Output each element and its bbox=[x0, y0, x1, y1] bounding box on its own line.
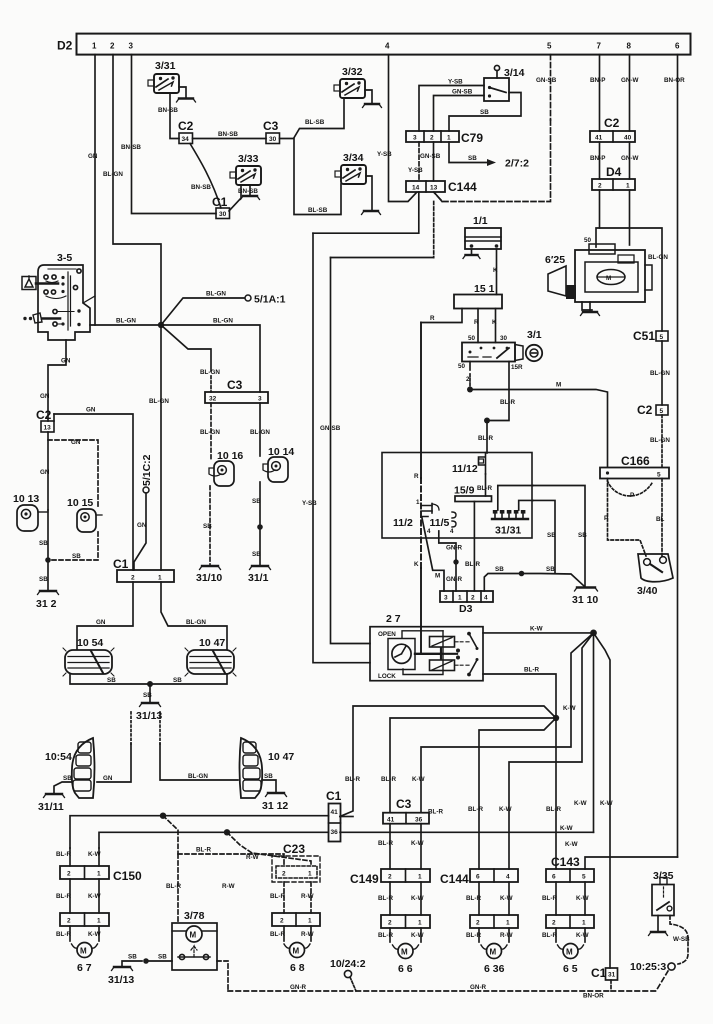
connector C144 top bbox=[406, 180, 477, 194]
svg-text:BL-R: BL-R bbox=[500, 399, 515, 406]
svg-text:13: 13 bbox=[44, 425, 52, 432]
terminal 10/25:3 bbox=[630, 961, 675, 973]
svg-text:OPEN: OPEN bbox=[378, 631, 396, 638]
svg-text:BL-R: BL-R bbox=[477, 485, 492, 492]
svg-text:31 10: 31 10 bbox=[572, 594, 598, 606]
svg-text:R: R bbox=[474, 319, 479, 326]
svg-text:2/7:2: 2/7:2 bbox=[505, 158, 529, 170]
svg-text:D2: D2 bbox=[57, 39, 73, 53]
svg-text:BL-R: BL-R bbox=[468, 806, 483, 813]
wire BL-GN junction to C3-3 bbox=[161, 318, 260, 393]
svg-text:SB: SB bbox=[252, 551, 261, 558]
wire GN 10:54 up bbox=[97, 744, 131, 782]
svg-text:31 2: 31 2 bbox=[36, 598, 57, 610]
wire K-W C3 to C149-1 bbox=[411, 824, 424, 869]
svg-text:R-W: R-W bbox=[500, 932, 513, 939]
svg-text:31/11: 31/11 bbox=[38, 801, 64, 813]
svg-text:C143: C143 bbox=[551, 855, 580, 869]
svg-text:14: 14 bbox=[412, 185, 420, 192]
lock actuator 2/7 bbox=[370, 613, 483, 681]
connector C1 rail bbox=[113, 557, 174, 582]
svg-text:Y-SB: Y-SB bbox=[302, 500, 317, 507]
wires to motor 6 5 bbox=[542, 928, 589, 942]
svg-text:5/1A:1: 5/1A:1 bbox=[254, 294, 286, 306]
svg-text:BL-R: BL-R bbox=[378, 895, 393, 902]
svg-text:C150: C150 bbox=[113, 869, 142, 883]
svg-text:2: 2 bbox=[476, 920, 480, 927]
wire BL-R dashed A to 3/78 and C23 bbox=[163, 816, 284, 923]
node junction BL-R bbox=[484, 418, 490, 424]
ground 31/13 bottom bbox=[108, 967, 134, 986]
connector D3 bbox=[440, 591, 493, 615]
svg-text:BL-R: BL-R bbox=[542, 932, 557, 939]
wire GN C2 dashed to 10 15 bbox=[48, 439, 98, 508]
connector C144 bottom bbox=[440, 869, 518, 886]
wire SB 31/31 to cluster edge lower bbox=[519, 500, 533, 510]
svg-text:K-W: K-W bbox=[560, 825, 573, 832]
svg-text:SB: SB bbox=[578, 532, 587, 539]
svg-text:10 54: 10 54 bbox=[77, 637, 103, 649]
switch assembly 3/5 bbox=[22, 252, 95, 340]
wire BL-GN C3-32 to 10 16 bbox=[200, 403, 220, 461]
svg-text:1: 1 bbox=[158, 575, 162, 582]
ground 31/1 bbox=[248, 566, 271, 584]
wire 15-1 to 3/1 K bbox=[492, 309, 497, 343]
wire BL-GN 3/5 to junction bbox=[90, 318, 158, 326]
wire to motor 6/7 bbox=[56, 926, 101, 941]
svg-text:GN-R: GN-R bbox=[446, 545, 463, 552]
wire BN-SB 3/33 to C1 bbox=[191, 184, 258, 211]
wire BL-R C150 to connector bbox=[56, 879, 71, 913]
svg-text:K-W: K-W bbox=[88, 931, 101, 938]
svg-text:1: 1 bbox=[416, 499, 420, 506]
svg-text:GN: GN bbox=[96, 619, 106, 626]
wire BL-GN junction to 5/1A:1 bbox=[161, 291, 286, 326]
svg-text:8: 8 bbox=[627, 42, 632, 51]
wire W-SB 3/35 to 10/25:3 bbox=[670, 916, 690, 965]
connector C2 (34) bbox=[178, 119, 194, 144]
ground 31 12 bbox=[262, 793, 288, 812]
svg-text:5/1C:2: 5/1C:2 bbox=[141, 454, 153, 486]
wire BN-SB C2 to C3 bbox=[193, 131, 267, 139]
svg-text:31: 31 bbox=[608, 972, 616, 979]
svg-text:SB: SB bbox=[63, 775, 72, 782]
svg-text:K-W: K-W bbox=[500, 895, 513, 902]
relay 3/78 bbox=[172, 910, 217, 970]
svg-text:3/1: 3/1 bbox=[527, 329, 542, 341]
ground 31 10 bbox=[572, 588, 598, 607]
node 15 1 rail bbox=[454, 283, 502, 309]
wires C149 to lower connector bbox=[378, 882, 424, 915]
wire D4-1 to starter bbox=[629, 190, 631, 245]
connector C3 mid bbox=[205, 378, 268, 403]
wire SB 10:54 to ground 31:11 bbox=[54, 775, 72, 793]
svg-text:3/31: 3/31 bbox=[155, 60, 176, 72]
svg-text:P: P bbox=[604, 515, 608, 522]
switch 3/31 bbox=[148, 60, 179, 93]
lamp 10 13 bbox=[13, 493, 48, 531]
svg-text:BL-GN: BL-GN bbox=[650, 437, 670, 444]
svg-text:10:54: 10:54 bbox=[45, 751, 72, 763]
wire Y-SB C79-3 to C144-14 bbox=[408, 142, 423, 181]
ignition switch 3/1 bbox=[462, 329, 542, 362]
wire BN-P C2 to D4 bbox=[590, 142, 605, 179]
svg-text:R: R bbox=[430, 315, 435, 322]
wire GN-SB C79-2 to 3/14 bbox=[434, 89, 485, 132]
lamp 11/12 bbox=[452, 453, 486, 476]
svg-text:BL-R: BL-R bbox=[56, 893, 71, 900]
wire BL C166 to 3/40 bbox=[656, 479, 665, 557]
svg-text:GN: GN bbox=[40, 469, 50, 476]
svg-text:C1: C1 bbox=[326, 789, 342, 803]
svg-text:BL-R: BL-R bbox=[378, 932, 393, 939]
svg-text:2: 2 bbox=[471, 595, 475, 602]
svg-text:11/5: 11/5 bbox=[430, 517, 450, 529]
svg-text:BN-SB: BN-SB bbox=[218, 131, 238, 138]
wire SB 10 15 dashed to 10 13 bbox=[52, 532, 98, 560]
switch 3/40 bbox=[637, 554, 673, 597]
svg-text:4: 4 bbox=[450, 528, 454, 535]
svg-text:BL-R: BL-R bbox=[378, 840, 393, 847]
wire R-W dashed B to C23 bbox=[222, 832, 311, 890]
svg-text:6: 6 bbox=[552, 874, 556, 881]
lamp cluster 10 54 bbox=[63, 637, 114, 676]
svg-text:BL-SB: BL-SB bbox=[305, 119, 325, 126]
svg-text:GN-W: GN-W bbox=[621, 77, 639, 84]
wire 15-1 to 3/1 R bbox=[474, 309, 479, 343]
svg-text:BL-R: BL-R bbox=[270, 931, 285, 938]
wires to motor 6 36 bbox=[466, 928, 513, 942]
svg-text:1: 1 bbox=[582, 920, 586, 927]
svg-text:1: 1 bbox=[308, 871, 312, 878]
svg-text:M: M bbox=[556, 382, 561, 389]
svg-text:1: 1 bbox=[97, 918, 101, 925]
svg-text:SB: SB bbox=[39, 576, 48, 583]
svg-text:5: 5 bbox=[657, 472, 661, 479]
svg-text:BL-R: BL-R bbox=[466, 895, 481, 902]
wire M relay arm to D3-3 bbox=[422, 517, 444, 591]
svg-text:3: 3 bbox=[129, 42, 134, 51]
svg-text:3/32: 3/32 bbox=[342, 66, 363, 78]
svg-text:32: 32 bbox=[209, 396, 217, 403]
svg-text:15 1: 15 1 bbox=[474, 283, 495, 295]
svg-text:2: 2 bbox=[552, 920, 556, 927]
wire GN C2 up-over to C1 rail bbox=[54, 407, 133, 571]
wire C144-13 down legs bbox=[320, 192, 442, 644]
svg-text:SB: SB bbox=[264, 773, 273, 780]
svg-text:K-W: K-W bbox=[499, 806, 512, 813]
svg-text:50: 50 bbox=[458, 363, 466, 370]
wire BL-R 15/9 to D3-2 bbox=[465, 502, 480, 592]
wire dotted continuation left bbox=[131, 712, 160, 744]
svg-text:13: 13 bbox=[430, 185, 438, 192]
wire K-W fan to C144-4 bbox=[499, 633, 594, 869]
svg-text:2 7: 2 7 bbox=[386, 613, 401, 625]
svg-text:M: M bbox=[293, 947, 300, 956]
lamp cluster 10 47 bbox=[185, 637, 236, 676]
svg-text:SB: SB bbox=[39, 540, 48, 547]
wire Y-SB from D2-4 bbox=[377, 55, 417, 202]
ground for starter bbox=[581, 302, 600, 316]
svg-text:10/24:2: 10/24:2 bbox=[330, 958, 366, 970]
svg-text:15R: 15R bbox=[511, 364, 523, 371]
switch 3/34 bbox=[335, 152, 366, 184]
svg-text:BL-R: BL-R bbox=[428, 809, 443, 816]
wire BL-GN junction down bbox=[149, 325, 169, 570]
motor 6 5 bbox=[558, 944, 584, 976]
svg-text:50: 50 bbox=[468, 335, 476, 342]
svg-text:2: 2 bbox=[388, 920, 392, 927]
svg-text:15/9: 15/9 bbox=[454, 485, 475, 497]
svg-text:Y-SB: Y-SB bbox=[408, 167, 423, 174]
svg-text:BL-R: BL-R bbox=[56, 931, 71, 938]
ground 31/13 bbox=[136, 703, 162, 722]
wire BN-SB 3/31 to C2 bbox=[158, 93, 179, 139]
svg-text:5: 5 bbox=[660, 408, 664, 415]
svg-text:K-W: K-W bbox=[88, 893, 101, 900]
svg-text:6′25: 6′25 bbox=[545, 254, 565, 266]
connector C1 (31) bbox=[591, 966, 618, 980]
wire to motor 6/8 bbox=[270, 926, 314, 941]
switch 3/33 bbox=[230, 153, 261, 185]
svg-text:BL-GN: BL-GN bbox=[206, 291, 226, 298]
svg-text:SB: SB bbox=[203, 523, 212, 530]
svg-text:1: 1 bbox=[458, 595, 462, 602]
wire BL-GN from D2-2 bbox=[103, 55, 161, 325]
svg-text:10 47: 10 47 bbox=[268, 751, 294, 763]
svg-text:BL-R: BL-R bbox=[546, 806, 561, 813]
wire SB 3/14 to C79-1 bbox=[449, 93, 521, 132]
svg-text:2: 2 bbox=[430, 135, 434, 142]
svg-text:2: 2 bbox=[282, 871, 286, 878]
svg-text:SB: SB bbox=[107, 677, 116, 684]
svg-text:31/31: 31/31 bbox=[495, 525, 521, 537]
svg-text:41: 41 bbox=[387, 817, 395, 824]
svg-text:6 36: 6 36 bbox=[484, 963, 505, 975]
svg-text:1: 1 bbox=[447, 135, 451, 142]
svg-text:6 6: 6 6 bbox=[398, 963, 413, 975]
svg-text:BL-R: BL-R bbox=[466, 932, 481, 939]
svg-text:2: 2 bbox=[466, 376, 470, 383]
svg-text:BL-R: BL-R bbox=[465, 561, 480, 568]
svg-text:BL-SB: BL-SB bbox=[308, 207, 328, 214]
svg-text:BL-GN: BL-GN bbox=[250, 429, 270, 436]
svg-text:4: 4 bbox=[427, 528, 431, 535]
wire Y-SB C79-3 to 3/14 bbox=[419, 79, 484, 132]
node junction 50/M bbox=[467, 387, 473, 393]
svg-text:C23: C23 bbox=[283, 842, 305, 856]
node fan junction top bbox=[590, 630, 597, 637]
wire GN-W from D2-8 bbox=[621, 55, 639, 131]
svg-text:31/1: 31/1 bbox=[248, 572, 269, 584]
wire SB 10 13 to ground 31 2 bbox=[39, 510, 51, 590]
svg-text:41: 41 bbox=[595, 135, 603, 142]
svg-text:30: 30 bbox=[269, 136, 277, 143]
connector C51 bbox=[633, 329, 668, 343]
connector C150 bbox=[60, 866, 142, 883]
svg-text:1: 1 bbox=[626, 183, 630, 190]
svg-text:1: 1 bbox=[418, 920, 422, 927]
wire P C166 to 3/40 bbox=[604, 479, 646, 557]
wire dashed bottom bus BN-OR bbox=[228, 971, 668, 1000]
wire BL-R bus line A bbox=[70, 809, 443, 849]
svg-text:GN-SB: GN-SB bbox=[452, 89, 473, 96]
svg-text:BL-GN: BL-GN bbox=[116, 318, 136, 325]
svg-text:C144: C144 bbox=[440, 872, 469, 886]
svg-text:C166: C166 bbox=[621, 454, 650, 468]
ground for 3/33 bbox=[241, 185, 260, 200]
svg-text:C2: C2 bbox=[604, 116, 620, 130]
svg-text:4: 4 bbox=[506, 874, 510, 881]
svg-text:1: 1 bbox=[506, 920, 510, 927]
wire BL-R C23 down bbox=[270, 882, 285, 913]
svg-text:3: 3 bbox=[258, 396, 262, 403]
svg-text:BL-GN: BL-GN bbox=[103, 171, 123, 178]
svg-text:SB: SB bbox=[480, 109, 489, 116]
svg-text:2: 2 bbox=[110, 42, 115, 51]
svg-text:10 47: 10 47 bbox=[199, 637, 225, 649]
svg-text:BN-SB: BN-SB bbox=[158, 107, 178, 114]
ground for 3/35 bbox=[649, 916, 668, 936]
svg-text:K-W: K-W bbox=[565, 841, 578, 848]
svg-text:SB: SB bbox=[495, 566, 504, 573]
ground 31:11 bbox=[38, 794, 65, 813]
wire BL-GN junction branch to C3-32 bbox=[161, 325, 220, 392]
svg-text:41: 41 bbox=[331, 809, 339, 816]
relay 11/2 11/5 bbox=[393, 499, 456, 535]
wire BL-GN C1 to 10 47 bbox=[161, 582, 227, 649]
switch 3/14 with antenna bbox=[484, 65, 525, 101]
svg-text:R-W: R-W bbox=[222, 883, 235, 890]
wire P boot arc under C166 bbox=[608, 481, 653, 499]
svg-text:BL-GN: BL-GN bbox=[650, 370, 670, 377]
svg-text:6 7: 6 7 bbox=[77, 962, 92, 974]
motor 6/6 bbox=[393, 944, 419, 976]
svg-text:3-5: 3-5 bbox=[57, 252, 72, 264]
svg-text:R-W: R-W bbox=[246, 854, 259, 861]
wire GN C1 to 10 54 bbox=[77, 582, 133, 649]
wire BL-GN C51 to C2 bbox=[650, 341, 670, 405]
wire K-W C150 to connector bbox=[88, 879, 101, 913]
switch 3/32 bbox=[334, 66, 365, 98]
wire K-W 2/7 to fan junction bbox=[483, 626, 593, 633]
wire SB C79-1 to 2/7:2 arrow bbox=[449, 142, 529, 170]
relay 1/1 bbox=[465, 215, 501, 249]
svg-text:BL-GN: BL-GN bbox=[213, 318, 233, 325]
svg-text:2: 2 bbox=[388, 874, 392, 881]
svg-text:Y-SB: Y-SB bbox=[448, 79, 463, 86]
wire 50 stub to junction bbox=[458, 362, 470, 390]
svg-text:31 12: 31 12 bbox=[262, 800, 288, 812]
svg-text:4: 4 bbox=[385, 42, 390, 51]
wire BL-R fan to C144-6 bbox=[468, 718, 556, 869]
wire BN-SB from D2-3 bbox=[121, 55, 216, 214]
svg-text:K-W: K-W bbox=[563, 705, 576, 712]
svg-text:2: 2 bbox=[67, 871, 71, 878]
svg-text:SB: SB bbox=[173, 677, 182, 684]
connector D4 bbox=[592, 165, 635, 190]
wire R 1/1 to 15-1 bbox=[493, 249, 498, 295]
wire R rail down through cluster to 2/7 bbox=[414, 323, 421, 627]
svg-text:4: 4 bbox=[484, 595, 488, 602]
svg-text:SB: SB bbox=[128, 954, 137, 961]
svg-text:C144: C144 bbox=[448, 180, 477, 194]
svg-text:K-W: K-W bbox=[411, 840, 424, 847]
svg-text:BL-R: BL-R bbox=[478, 435, 493, 442]
svg-text:36: 36 bbox=[331, 829, 339, 836]
svg-text:10 15: 10 15 bbox=[67, 497, 93, 509]
svg-text:3/33: 3/33 bbox=[238, 153, 259, 165]
svg-text:BN-SB: BN-SB bbox=[121, 144, 141, 151]
wire 50 rail to right chain bbox=[584, 228, 668, 331]
resistor pack 31/31 bbox=[492, 510, 528, 537]
svg-text:BL: BL bbox=[656, 516, 665, 523]
svg-text:GN: GN bbox=[61, 358, 71, 365]
wires to motor 6/6 bbox=[378, 928, 424, 942]
node junction A bbox=[160, 813, 166, 819]
svg-text:C3: C3 bbox=[227, 378, 243, 392]
svg-text:3/35: 3/35 bbox=[653, 870, 674, 882]
svg-text:GN: GN bbox=[137, 522, 147, 529]
svg-text:C1: C1 bbox=[212, 195, 228, 209]
wire BL-SB C3 to 3/32 bbox=[280, 98, 345, 139]
wire C144-14 down legs bbox=[302, 192, 419, 663]
wire SB 31/31 to cluster edge upper bbox=[498, 486, 533, 511]
svg-text:1: 1 bbox=[308, 918, 312, 925]
wire BN-SB C2 to C1 bbox=[190, 144, 221, 209]
svg-text:2: 2 bbox=[280, 918, 284, 925]
svg-text:C2: C2 bbox=[36, 408, 52, 422]
wire SB 10 14 to ground 31/1 bbox=[252, 482, 263, 565]
svg-text:GN-W: GN-W bbox=[621, 155, 639, 162]
connector below C23 bbox=[272, 913, 320, 926]
svg-text:C51: C51 bbox=[633, 329, 655, 343]
lamp 10 15 bbox=[67, 497, 102, 532]
svg-text:C2: C2 bbox=[637, 403, 653, 417]
svg-text:30: 30 bbox=[219, 211, 227, 218]
svg-text:2: 2 bbox=[598, 183, 602, 190]
connector C143 bbox=[546, 855, 594, 882]
wire GN-R relay to D3-1 bbox=[439, 531, 463, 591]
wire K-W bus line B bbox=[99, 825, 594, 848]
wire BL-R fan to C1-41 bbox=[340, 706, 556, 817]
svg-text:6 8: 6 8 bbox=[290, 962, 305, 974]
node instrument cluster box bbox=[382, 453, 532, 539]
svg-text:M: M bbox=[435, 573, 440, 580]
svg-text:5: 5 bbox=[582, 874, 586, 881]
svg-text:10 13: 10 13 bbox=[13, 493, 39, 505]
svg-text:BL-GN: BL-GN bbox=[188, 773, 208, 780]
connector C149 bbox=[350, 869, 430, 886]
connector below C143 bbox=[546, 915, 594, 928]
svg-text:BL-R: BL-R bbox=[542, 895, 557, 902]
svg-text:7: 7 bbox=[597, 42, 602, 51]
svg-text:11/2: 11/2 bbox=[393, 517, 413, 529]
svg-text:M: M bbox=[566, 948, 573, 957]
wires C143 to lower connector bbox=[542, 882, 589, 915]
wire GN C2 to 10 13 bbox=[40, 432, 50, 510]
svg-text:GN-SB: GN-SB bbox=[536, 77, 557, 84]
svg-text:SB: SB bbox=[547, 532, 556, 539]
svg-text:GN-SB: GN-SB bbox=[320, 425, 341, 432]
svg-text:GN: GN bbox=[71, 439, 81, 446]
wire BL-R fan to C143-6 bbox=[546, 718, 561, 869]
wire D4-2 to terminal 50 rail bbox=[599, 190, 601, 228]
wire SB 3/78 to ground 31/13 bbox=[122, 954, 172, 967]
wire GN-R 3/78 to bottom bus bbox=[217, 961, 228, 991]
node junction B bbox=[224, 829, 230, 835]
svg-text:D4: D4 bbox=[606, 165, 622, 179]
